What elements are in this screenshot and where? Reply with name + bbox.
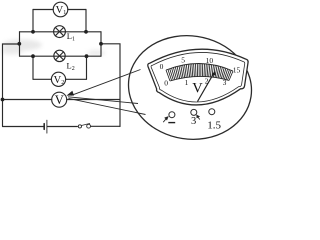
svg-text:0: 0 <box>164 79 168 88</box>
node junction V row left <box>1 98 5 102</box>
wire L2 row <box>20 55 102 57</box>
lamp L1 <box>54 26 66 38</box>
voltmeter V1 <box>53 2 68 17</box>
wire V2 right vertical <box>86 56 88 79</box>
terminal minus label <box>168 122 175 124</box>
node junction L1 left <box>31 30 35 34</box>
wire V2 left vertical <box>32 56 34 79</box>
scan smudge left <box>2 40 42 51</box>
scale outer arc <box>166 63 233 71</box>
needle arrowhead <box>212 71 216 75</box>
svg-text:L2: L2 <box>67 61 75 73</box>
svg-text:10: 10 <box>206 56 214 65</box>
svg-text:1: 1 <box>185 78 189 87</box>
wire main right <box>101 44 120 127</box>
svg-text:5: 5 <box>181 56 185 65</box>
battery cell <box>44 120 47 133</box>
wire bottom row <box>3 125 121 127</box>
svg-text:V2: V2 <box>54 75 65 86</box>
terminal 1.5 <box>209 109 215 115</box>
scale tick marks <box>166 64 233 82</box>
svg-text:3: 3 <box>191 116 196 127</box>
terminal minus <box>169 112 175 118</box>
wire V2 row <box>33 78 87 80</box>
svg-text:V1: V1 <box>56 5 67 16</box>
meter needle <box>198 73 214 101</box>
svg-text:0: 0 <box>160 62 164 71</box>
svg-text:1.5: 1.5 <box>207 120 221 132</box>
svg-text:L1: L1 <box>67 31 75 43</box>
svg-text:15: 15 <box>233 66 241 75</box>
switch <box>78 124 90 129</box>
node junction main right <box>99 42 103 46</box>
wire V1 row <box>33 9 86 11</box>
arrowhead at voltmeter V <box>67 91 73 95</box>
magnifier ellipse <box>121 27 258 147</box>
scale inner arc <box>170 76 229 81</box>
wire V1 right vertical <box>85 10 87 32</box>
meter face outer outline <box>148 49 248 105</box>
node junction main left <box>17 42 21 46</box>
node junction L2 right <box>85 54 89 58</box>
wire V1 left vertical <box>32 10 34 32</box>
wire V row <box>3 99 121 101</box>
scan smudge right of L2 <box>87 50 105 56</box>
wire L1 row <box>20 31 102 33</box>
lamp L2 <box>54 50 65 61</box>
node junction L1 right <box>84 30 88 34</box>
meter face inner outline <box>151 52 245 102</box>
arrow at 3 terminal <box>198 117 200 120</box>
terminal 3 <box>191 109 197 115</box>
voltmeter V <box>52 92 67 107</box>
node junction L2 left <box>31 54 35 58</box>
wire left connector vertical <box>19 32 21 56</box>
callout line B to minus terminal <box>68 97 138 104</box>
wire right connector vertical <box>100 32 102 56</box>
arrow at minus terminal <box>163 118 167 123</box>
voltmeter V2 <box>51 72 65 86</box>
callout line A to magnifier <box>72 70 141 96</box>
callout line C to 3 terminal <box>69 98 146 114</box>
svg-text:3: 3 <box>223 78 227 87</box>
wire main left <box>3 44 20 127</box>
svg-text:V: V <box>55 93 64 107</box>
